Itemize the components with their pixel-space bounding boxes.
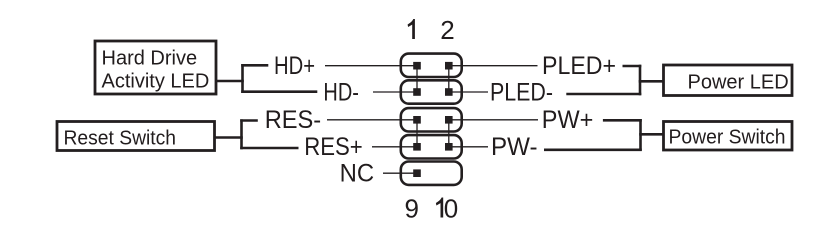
label pin number 10 — [436, 198, 443, 218]
wire RES- to pin 5 — [327, 119, 417, 121]
pin 9 — [413, 169, 421, 177]
pin 8 — [445, 143, 453, 151]
header row 2 (pins 3-4) — [401, 80, 462, 103]
svg-text:RES+: RES+ — [304, 133, 363, 161]
wire pin 6 to pin 8 link — [448, 120, 450, 147]
wire HD- stub — [241, 90, 317, 93]
svg-text:PLED+: PLED+ — [542, 52, 616, 80]
wire bracket to Power LED box — [639, 80, 664, 83]
svg-text:2: 2 — [440, 15, 454, 45]
box Power LED — [664, 65, 793, 96]
wire PW bracket vertical — [639, 119, 642, 151]
wire bracket to Power Switch box — [639, 133, 664, 136]
wire pin 1 to pin 3 link — [416, 66, 418, 92]
pin 6 — [445, 116, 453, 124]
wire pin 2 to pin 4 link — [448, 66, 450, 92]
wire Reset bracket vertical — [240, 119, 243, 149]
wire RES- stub — [240, 119, 258, 122]
wire NC to pin 9 — [383, 172, 417, 174]
box Power Switch — [664, 122, 793, 151]
header row 3 (pins 5-6) — [401, 108, 462, 131]
wire PW+ stub — [603, 119, 642, 122]
svg-text:PW+: PW+ — [542, 106, 594, 134]
pin 4 — [445, 88, 453, 96]
wire pin 6 to PW+ — [449, 119, 538, 121]
header row 1 (pins 1-2) — [401, 54, 462, 77]
header row 4 (pins 7-8) — [401, 135, 462, 158]
label pin number 1 — [408, 19, 415, 39]
wire HD+ to pin 1 — [325, 65, 417, 67]
svg-text:Hard DriveActivity LED: Hard DriveActivity LED — [102, 48, 210, 93]
svg-text:HD+: HD+ — [274, 52, 315, 80]
pin 1 — [413, 62, 421, 70]
svg-text:PW-: PW- — [491, 133, 538, 161]
pin 2 — [445, 62, 453, 70]
svg-text:NC: NC — [340, 160, 375, 188]
wire HD- to pin 3 — [373, 91, 417, 93]
box Reset Switch — [57, 122, 215, 151]
svg-text:Power LED: Power LED — [688, 72, 789, 94]
wire pin 5 to pin 7 link — [416, 120, 418, 147]
wire RES+ stub — [240, 147, 298, 150]
svg-text:PLED-: PLED- — [490, 78, 553, 106]
wire HD box to bracket — [216, 80, 244, 83]
wire Reset box to bracket — [215, 136, 243, 139]
header row 5 (pins 9-10) — [401, 162, 462, 185]
svg-text:HD-: HD- — [323, 78, 359, 106]
pin 5 — [413, 116, 421, 124]
svg-text:Reset Switch: Reset Switch — [64, 128, 177, 150]
svg-text:RES-: RES- — [265, 106, 322, 134]
wire pin 2 to PLED+ — [449, 65, 538, 67]
wire RES+ to pin 7 — [372, 146, 417, 148]
svg-text:Power Switch: Power Switch — [669, 127, 786, 149]
wire PLED+ stub — [623, 65, 642, 68]
wire PW- to bracket — [544, 149, 642, 152]
wire pin 8 to PW- — [449, 146, 488, 148]
wire HD+ stub — [241, 64, 268, 67]
wire HD bracket vertical — [241, 64, 244, 93]
box Hard Drive Activity LED — [95, 41, 216, 94]
wire PLED bracket vertical — [639, 65, 642, 96]
wire PLED- to bracket — [566, 93, 641, 96]
svg-text:9: 9 — [405, 194, 419, 224]
svg-text:0: 0 — [444, 194, 458, 224]
pin 7 — [413, 143, 421, 151]
pin 3 — [413, 88, 421, 96]
wire pin 4 to PLED- — [449, 91, 488, 93]
